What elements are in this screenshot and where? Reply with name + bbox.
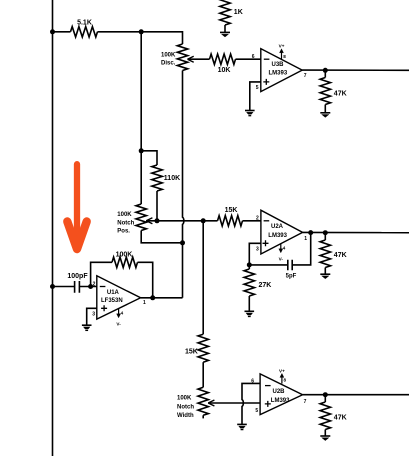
svg-text:3: 3 bbox=[256, 246, 259, 252]
svg-text:6: 6 bbox=[252, 54, 255, 60]
wire 1K to ground bbox=[224, 25, 226, 32]
plus input symbol U3B bbox=[263, 79, 269, 85]
svg-text:100K: 100K bbox=[177, 396, 192, 402]
node junction 5pF feedback / output bbox=[308, 230, 313, 235]
potentiometer 100K Disc bbox=[177, 44, 187, 71]
capacitor 5pF bbox=[288, 260, 292, 270]
svg-text:47K: 47K bbox=[334, 415, 347, 422]
wire feedback up and to 100K bbox=[91, 262, 112, 286]
svg-text:5: 5 bbox=[256, 85, 259, 91]
wire left rail to R 5.1K bbox=[53, 31, 71, 33]
wire U1A pin 3 to ground bbox=[87, 308, 97, 325]
ground U2B pin 6 bbox=[237, 423, 247, 425]
ground U3B pin 5 bbox=[245, 110, 255, 112]
op-amp U3B LM393 bbox=[261, 49, 302, 92]
wire 5pF to U2A output bbox=[292, 233, 311, 265]
svg-text:Pos.: Pos. bbox=[117, 228, 130, 234]
svg-text:V-: V- bbox=[116, 321, 121, 326]
wire rail from 100K Disc bottom down to U1A output (hops over wiper bus) bbox=[183, 71, 184, 298]
plus input symbol U2A bbox=[263, 240, 269, 246]
resistor 5.1K bbox=[71, 27, 98, 37]
svg-text:Notch: Notch bbox=[177, 404, 194, 410]
svg-text:1K: 1K bbox=[234, 9, 243, 16]
ground U1A pin 3 bbox=[82, 324, 92, 326]
minus input symbol U3B bbox=[264, 58, 270, 60]
resistor 110K bbox=[152, 165, 162, 191]
wire rail wiper bus down to 15K bottom bbox=[202, 221, 204, 334]
resistor 15K (to U2A) bbox=[218, 216, 243, 226]
svg-text:U2A: U2A bbox=[271, 224, 284, 230]
capacitor 100pF bbox=[75, 281, 80, 293]
svg-text:4: 4 bbox=[283, 246, 286, 251]
resistor 47K (top) bbox=[324, 70, 326, 77]
svg-text:2: 2 bbox=[93, 282, 96, 288]
svg-text:LF353N: LF353N bbox=[101, 298, 123, 304]
node U2B output / 47K junction bbox=[323, 392, 328, 397]
wire wiper Notch Width to U2B pin 5 bbox=[208, 402, 260, 404]
node junction 100pF / feedback bbox=[88, 284, 93, 289]
svg-text:U2B: U2B bbox=[273, 389, 286, 395]
svg-text:7: 7 bbox=[304, 73, 307, 79]
svg-text:100K: 100K bbox=[117, 212, 132, 218]
minus input symbol U1A bbox=[100, 286, 106, 288]
resistor 10K bbox=[210, 54, 236, 64]
wire Notch Pos bottom to mid rail bbox=[141, 231, 182, 243]
wire U1A output to mid rail bbox=[141, 297, 183, 299]
wire U2B pin 6 to ground (hops over wiper wire) bbox=[242, 383, 260, 424]
resistor 15K (bottom) bbox=[198, 334, 208, 362]
plus input symbol U1A bbox=[101, 305, 107, 311]
svg-text:U3B: U3B bbox=[272, 62, 285, 68]
wire 100pF to U1A pin 2 bbox=[79, 286, 96, 288]
op-amp U2A LM393 bbox=[261, 210, 303, 254]
ground arrow below 47K bottom bbox=[320, 435, 330, 437]
svg-text:Width: Width bbox=[177, 413, 194, 419]
resistor 1K (cut off at top edge) bbox=[220, 0, 230, 25]
svg-text:Disc.: Disc. bbox=[161, 60, 176, 66]
wire to 110K bbox=[141, 151, 157, 165]
svg-text:8: 8 bbox=[283, 54, 286, 59]
potentiometer 100K Notch Pos bbox=[136, 204, 146, 231]
svg-text:V+: V+ bbox=[279, 44, 285, 49]
wire wiper bus: Notch Pos wiper to 15K bbox=[146, 220, 217, 222]
ground arrow below 1K bbox=[220, 31, 230, 33]
svg-text:U1A: U1A bbox=[107, 290, 120, 296]
node junction 5.1K / vertical rail to Notch Pos bbox=[139, 29, 144, 34]
wire U3B output to right edge bbox=[302, 69, 409, 71]
op-amp U2B LM393 bbox=[260, 374, 303, 415]
wire 15K to Notch Width pot bbox=[202, 362, 204, 387]
V- supply arrow U2A pin 4 bbox=[280, 244, 282, 250]
svg-text:5pF: 5pF bbox=[286, 274, 297, 280]
svg-text:10K: 10K bbox=[218, 67, 231, 74]
resistor 27K bbox=[248, 265, 250, 269]
V+ supply arrow U2B pin 8 bbox=[281, 376, 283, 383]
svg-text:110K: 110K bbox=[164, 175, 180, 182]
minus input symbol U2B bbox=[265, 385, 271, 387]
node junction pin3 / 27K / 5pF bbox=[247, 262, 252, 267]
wire U2B output to right edge bbox=[303, 394, 409, 396]
svg-text:5: 5 bbox=[255, 408, 258, 414]
wire left vertical rail bbox=[52, 0, 54, 456]
wire U3B pin 5 to ground bbox=[250, 82, 261, 110]
node junction left rail / 5.1K bbox=[50, 29, 55, 34]
svg-text:V-: V- bbox=[279, 256, 284, 261]
V+ supply arrow U3B pin 8 bbox=[281, 52, 283, 60]
resistor 100K feedback bbox=[112, 257, 138, 267]
svg-text:5.1K: 5.1K bbox=[77, 20, 92, 27]
node junction Notch Pos bottom / mid rail bbox=[180, 240, 185, 245]
svg-text:2: 2 bbox=[256, 216, 259, 222]
ground arrow below 47K middle bbox=[320, 273, 330, 275]
svg-text:LM393: LM393 bbox=[269, 71, 288, 77]
svg-text:3: 3 bbox=[92, 312, 95, 318]
wire 5.1K to 100K Disc top bbox=[98, 32, 183, 44]
svg-text:1: 1 bbox=[143, 300, 146, 306]
node U3B output / 47K junction bbox=[323, 68, 328, 73]
svg-text:100pF: 100pF bbox=[67, 273, 88, 280]
resistor 47K (middle) bbox=[324, 233, 326, 240]
annotation orange arrow bbox=[67, 164, 86, 249]
wire 110K bottom to wiper bus bbox=[156, 191, 158, 221]
ground below 27K bbox=[245, 310, 255, 312]
svg-text:LM393: LM393 bbox=[268, 233, 287, 239]
svg-text:4: 4 bbox=[121, 311, 124, 316]
node junction feedback / output bbox=[150, 295, 155, 300]
V- supply arrow U1A pin 4 bbox=[118, 309, 120, 315]
svg-text:Notch: Notch bbox=[117, 220, 134, 226]
resistor 47K (bottom) bbox=[324, 395, 326, 402]
wire wiper of 100K Disc to 10K bbox=[188, 58, 210, 60]
svg-text:27K: 27K bbox=[259, 282, 272, 289]
node junction left rail / 100pF bbox=[50, 284, 55, 289]
wire U2A output to right edge bbox=[303, 231, 409, 233]
svg-text:8: 8 bbox=[284, 378, 287, 383]
wire 100K to U1A output bbox=[138, 262, 153, 298]
svg-text:47K: 47K bbox=[334, 252, 347, 259]
wire U2A pin 3 to 27K / 5pF bbox=[249, 243, 261, 265]
svg-text:100K: 100K bbox=[116, 252, 133, 259]
svg-text:LM393: LM393 bbox=[271, 398, 290, 404]
wire rail from 5.1K junction down to 100K Notch Pos bbox=[140, 32, 142, 204]
svg-text:47K: 47K bbox=[334, 90, 347, 97]
svg-text:7: 7 bbox=[304, 399, 307, 405]
wire 15K to U2A pin 2 bbox=[243, 220, 261, 222]
svg-text:V+: V+ bbox=[279, 368, 285, 373]
wire junction to 5pF bbox=[249, 264, 287, 266]
svg-text:15K: 15K bbox=[225, 207, 238, 214]
op-amp U1A LF353N bbox=[97, 276, 141, 319]
node U2A output / 47K junction bbox=[323, 230, 328, 235]
wire left rail to 100pF bbox=[53, 286, 75, 288]
svg-text:15K: 15K bbox=[185, 349, 198, 356]
plus input symbol U2B bbox=[265, 401, 271, 407]
potentiometer 100K Notch Width bbox=[198, 387, 208, 415]
svg-text:100K: 100K bbox=[161, 53, 176, 59]
minus input symbol U2A bbox=[264, 220, 270, 222]
svg-text:1: 1 bbox=[304, 236, 307, 242]
node junction wiper bus / rail to Notch Width bbox=[201, 218, 206, 223]
ground arrow below 47K top bbox=[320, 112, 330, 114]
node junction 110K branch bbox=[139, 148, 144, 153]
node junction 110K / wiper bus bbox=[155, 218, 160, 223]
wire 10K to U3B pin 6 bbox=[236, 58, 261, 60]
